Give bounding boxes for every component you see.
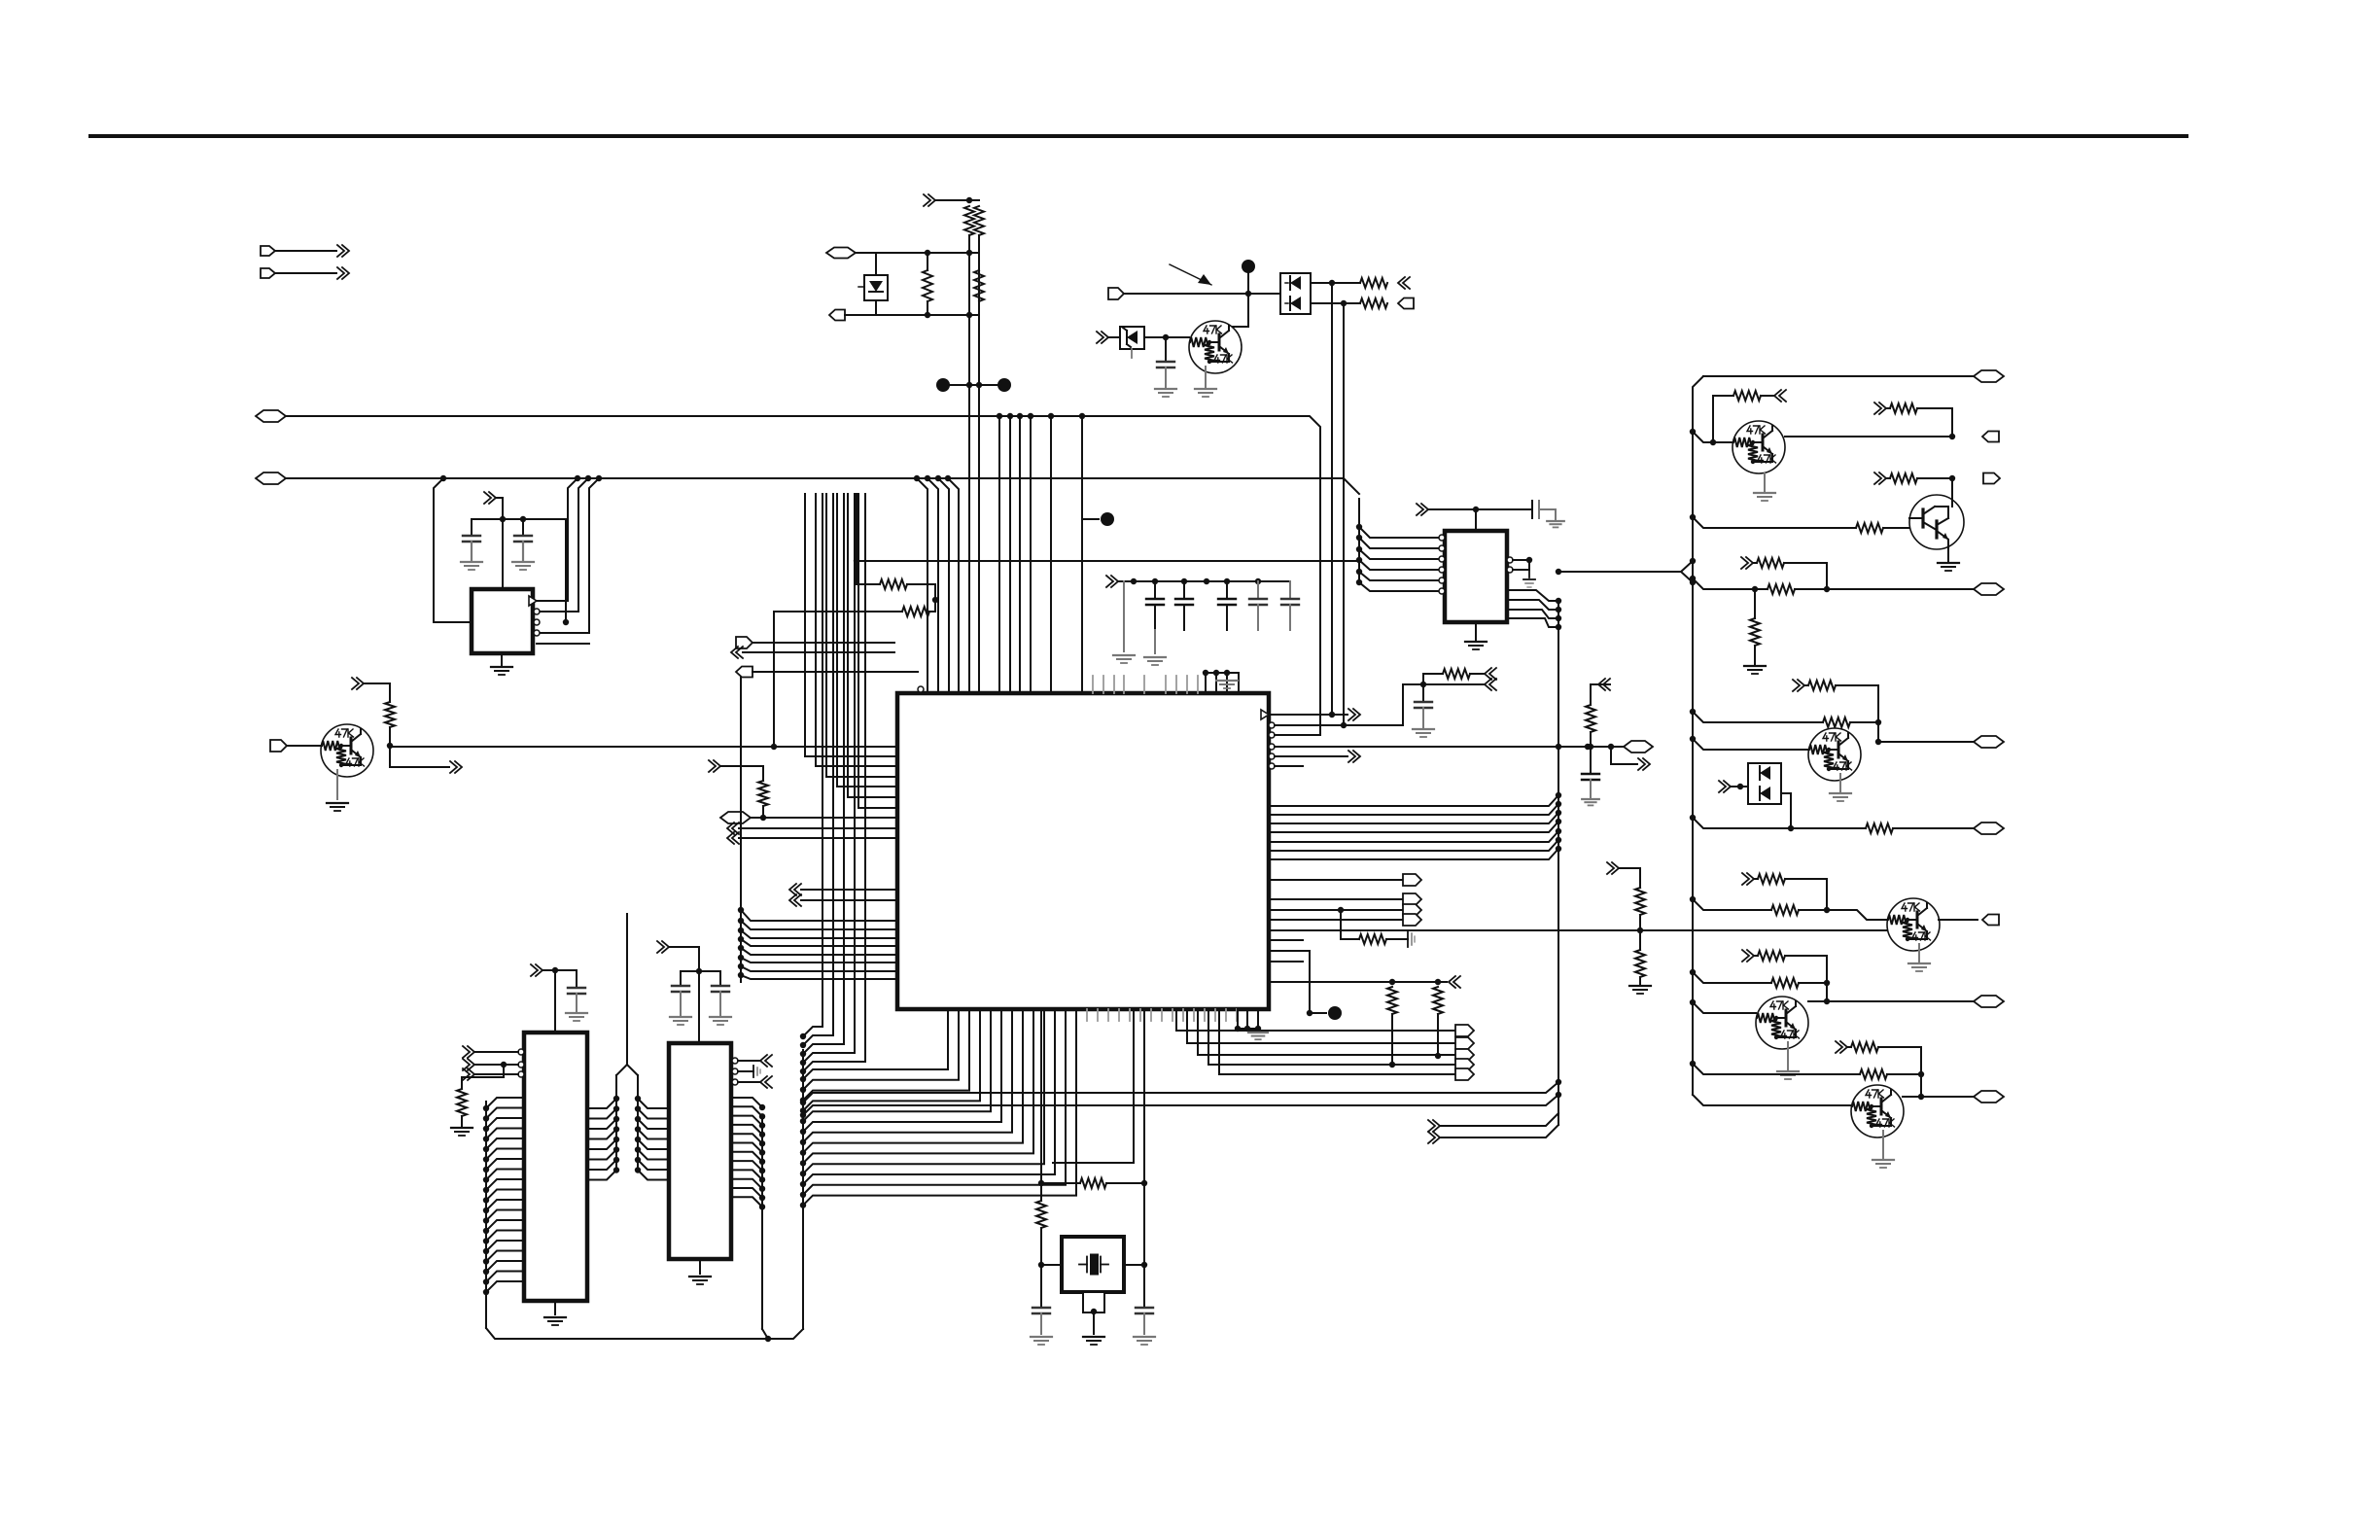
pins U5 right top: [1507, 557, 1513, 563]
capacitor C11: [522, 519, 524, 536]
resistor R29: [385, 702, 395, 727]
transistor QD circuit: [1690, 896, 1696, 902]
wire row 704: [1423, 683, 1484, 685]
wire pin R967 stub: [1269, 939, 1303, 941]
resistor R44: [1753, 562, 1757, 564]
pin U5 extra: [1358, 499, 1360, 527]
wire xtal jog: [1053, 1009, 1134, 1163]
chevron in D5: [1719, 781, 1726, 792]
chevron R40: [1774, 390, 1781, 402]
pins U3 left o: [518, 1049, 524, 1055]
wire zener out: [1144, 336, 1189, 338]
resistor R48: [1866, 823, 1893, 833]
ground U5: [1475, 622, 1477, 640]
ground U3: [554, 1301, 556, 1314]
capacitor C15: [681, 970, 699, 972]
transistor QA circuit: [1690, 429, 1696, 435]
connector pentagon P10: [270, 740, 287, 752]
wire U3 vcc: [542, 970, 555, 1032]
node big C: [1242, 260, 1255, 273]
xtal case pin: [1083, 1292, 1104, 1312]
capacitor C16: [1040, 1265, 1042, 1308]
chevron in L852: [727, 822, 734, 834]
chevron in U3 vcc: [531, 964, 538, 976]
wire U2 vcc: [496, 498, 503, 589]
bus U4 right fan: [761, 1115, 763, 1329]
wire risers bus2 to IC top: [917, 478, 927, 693]
bus connector B1: [256, 410, 286, 422]
wire pin R768 long: [1275, 746, 1624, 748]
resistor R31: [1041, 1182, 1080, 1184]
chevron in Q2 top: [352, 678, 359, 689]
pins U5 left o: [1439, 535, 1445, 541]
wire pin R978 bigdot: [1269, 951, 1326, 1013]
IC U3: [524, 1032, 587, 1301]
resistor R47: [1693, 712, 1823, 722]
chevron out q2: [450, 761, 457, 773]
chevron out J2: [337, 267, 344, 279]
chevron in R43: [1874, 472, 1881, 484]
stubs U1 top: [1092, 676, 1094, 693]
resistor R35: [1387, 987, 1397, 1014]
ground QC: [1839, 774, 1841, 791]
resistor rail right: [1392, 981, 1447, 983]
wire branch to U2: [434, 478, 473, 622]
wire branch U2 r3: [537, 478, 599, 633]
capacitor C14: [699, 971, 720, 986]
nodes bus2 branches U2 right: [575, 475, 580, 481]
wire pin R957 long: [1269, 929, 1889, 931]
chevron in R24: [1398, 277, 1405, 289]
connector arrow P9: [736, 667, 752, 678]
dual diode D5 box: [1748, 763, 1781, 804]
bus fan to U1 left lower: [740, 671, 742, 982]
triple pin ground: [1206, 672, 1239, 674]
wire QB collector: [1951, 478, 1953, 507]
transistor QC: [1808, 728, 1861, 781]
resistor R33: [1423, 674, 1443, 684]
wire q2 node: [389, 727, 391, 746]
IC U4: [669, 1043, 731, 1259]
resistor R60: [1590, 684, 1592, 705]
wire r-net link: [929, 584, 935, 612]
wire cap rail U2: [472, 518, 566, 520]
connector pentagon P7: [720, 812, 751, 823]
chevron U4 r3: [738, 1081, 759, 1083]
resistor R55: [1860, 1069, 1887, 1079]
ground QA: [1764, 473, 1766, 491]
resistor R36: [1433, 987, 1443, 1014]
resistor R53: [1771, 978, 1799, 988]
wire pin R746: [1275, 724, 1403, 726]
connector out QA: [1982, 432, 1999, 442]
resistor R32: [1040, 1183, 1042, 1201]
wire pin R936 flag: [1269, 909, 1403, 911]
chevron in PWR: [924, 194, 930, 206]
wire pin R925 flag: [1269, 898, 1403, 900]
chevron in mid chain: [1598, 679, 1605, 690]
connector pentagon P4: [829, 310, 845, 321]
wire d4 top out: [1311, 282, 1360, 284]
chevron in R56: [1836, 1041, 1842, 1053]
wire riser x1007: [978, 235, 980, 693]
wire U4 bus to rail: [762, 1329, 768, 1339]
resistor R43: [1886, 477, 1890, 479]
resistor network RN1: [1690, 576, 1696, 581]
diode D1 box: [875, 253, 877, 275]
gnd sym U4 r2: [738, 1070, 753, 1072]
crystal X1: [1062, 1237, 1124, 1292]
wire pin row 691: [752, 671, 918, 673]
chevron in L862: [727, 832, 734, 844]
capacitor C19 horiz: [1476, 508, 1530, 510]
chevron out J1: [337, 245, 344, 257]
connector flag QC: [1974, 736, 2004, 748]
zener D3 box: [1108, 336, 1120, 338]
chevron row704: [1485, 679, 1491, 690]
ground QD: [1918, 944, 1920, 962]
resistor R54: [1754, 955, 1758, 957]
node big D: [1101, 512, 1114, 526]
chevron in R54: [1742, 950, 1749, 962]
connector flag R48: [1974, 822, 2004, 834]
node bus2 branch A: [440, 475, 446, 481]
connector pentagon P6: [1398, 298, 1414, 309]
wire riser x881: [856, 494, 857, 584]
wire tap to right bus: [1558, 571, 1681, 573]
chevron in zener: [1097, 332, 1103, 343]
IC U2: [472, 589, 533, 653]
vert cluster down legs: [822, 494, 823, 1027]
cap-gnd glyph R34: [1386, 938, 1408, 940]
capacitor C13: [555, 970, 577, 988]
chevron R33: [1485, 668, 1491, 680]
bus U3 left fan: [485, 1102, 487, 1328]
resistor R34: [1359, 934, 1386, 944]
wire d4 bot out: [1311, 302, 1360, 304]
chevrons in U3 left: [463, 1046, 470, 1058]
resistor R52: [1754, 878, 1758, 880]
wire R768 branch: [1611, 747, 1637, 764]
wire QC out: [1878, 722, 1974, 742]
chevron U4 r1: [738, 1060, 759, 1062]
wire pin R788 stub: [1275, 765, 1303, 767]
wire pin R1000 rail: [1269, 981, 1392, 983]
wire pin R735: [1269, 714, 1347, 716]
transistor QC circuit: [1690, 736, 1696, 742]
pin U2 bottom wire: [537, 643, 589, 645]
wire branch U2 r2: [537, 478, 588, 612]
bottom triple pin ground: [1237, 1009, 1239, 1029]
U1 bottom right bundle: [1176, 1009, 1455, 1031]
resistor R27: [902, 607, 929, 616]
wire opto line: [1124, 293, 1280, 295]
resistor R25: [1360, 298, 1387, 308]
chevron in U4 vcc: [657, 941, 664, 953]
wire pin L841: [751, 817, 897, 819]
node big E: [1328, 1006, 1342, 1020]
wire bus1: [286, 416, 1320, 735]
ground QE: [1787, 1042, 1789, 1069]
capacitor bank C1-C5: [1154, 581, 1156, 599]
chevron in R49: [1607, 862, 1614, 874]
wire QE in: [1690, 999, 1696, 1005]
IC U5: [1445, 531, 1507, 622]
wire Y split: [616, 914, 627, 1075]
chevron out R735: [1348, 709, 1355, 720]
wire pin R905 flag: [1269, 879, 1403, 881]
resistor R50: [1635, 950, 1645, 977]
wire D5 in: [1731, 786, 1748, 787]
chevron in R28: [709, 760, 716, 772]
capacitor C17: [1143, 1265, 1145, 1308]
wire q2 out down: [390, 746, 449, 767]
connector flag R925: [1403, 893, 1421, 905]
ground caps 2: [1154, 630, 1156, 653]
bus connector B2: [256, 472, 286, 484]
wire r27 left: [881, 611, 902, 612]
wire bottom rail: [486, 1328, 803, 1339]
wire link y577: [857, 560, 1359, 562]
wire pin R989 stub: [1269, 961, 1303, 962]
connector flag T1: [1974, 370, 2004, 382]
ground U4: [699, 1259, 701, 1274]
chevron in L926: [789, 894, 796, 906]
wire collector riser: [1227, 266, 1248, 332]
top border rule: [90, 134, 2187, 138]
resistor R46: [1804, 684, 1808, 686]
chevron in R41: [1874, 402, 1881, 414]
bus2 fan to U5: [1358, 499, 1360, 582]
transistor QE circuit: [1690, 969, 1696, 975]
wire riser x1370: [1331, 283, 1333, 715]
wire caps rail: [1118, 580, 1290, 582]
transistor Q1: [1189, 321, 1242, 373]
wire riser x1382: [1343, 303, 1345, 725]
IC U1 main: [897, 693, 1269, 1009]
wire rail y260: [856, 252, 979, 254]
wire xtal left riser: [1040, 1009, 1042, 1183]
resistor R49 chain: [1619, 868, 1640, 888]
lower right pins U1 to bus1603: [1269, 795, 1558, 806]
wire bus2: [286, 478, 1359, 494]
dual diode D4 box: [1280, 273, 1311, 314]
wire QF in: [1693, 1095, 1851, 1105]
chevron in row 671: [731, 647, 738, 658]
connector flag QF: [1974, 1091, 2004, 1102]
resistor R40 branch: [1713, 396, 1733, 442]
resistor R23: [978, 253, 980, 270]
pin U1 top stub o: [918, 686, 924, 692]
transistor QB circuit: [1690, 514, 1696, 520]
chevron in R46: [1793, 680, 1800, 691]
transistor Q2: [321, 724, 373, 777]
cap branch R746: [1403, 684, 1423, 725]
wire rail y324: [845, 314, 979, 316]
connector flag RN1: [1974, 583, 2004, 595]
pins U4 right o: [732, 1058, 738, 1064]
wire dot link: [943, 384, 1004, 386]
resistor R51: [1771, 905, 1799, 915]
pins U2 right: [534, 609, 540, 614]
connector flag out R768: [1624, 741, 1653, 752]
nodes bus2 risers: [914, 475, 920, 481]
capacitor C18: [1422, 684, 1424, 702]
wire U4 vcc: [669, 947, 699, 1043]
chevron out R768b: [1638, 758, 1645, 770]
chevron in L915: [789, 884, 796, 895]
wire QA out: [1785, 436, 1952, 437]
stub big dot: [1082, 518, 1099, 520]
resistor R24: [1360, 278, 1387, 288]
connector flag P5: [1108, 288, 1124, 299]
connector flag R946: [1403, 914, 1421, 926]
resistor R41: [1886, 407, 1890, 409]
resistor R28 riser: [720, 766, 763, 781]
chevron rail: [1449, 976, 1455, 988]
resistor R30 pulldown: [462, 1065, 504, 1089]
resistor R21: [974, 206, 984, 235]
wire QE out: [1808, 1000, 1974, 1002]
connector flag R905: [1403, 874, 1421, 886]
wire mid chain: [1591, 683, 1610, 685]
wire cap rail down to pin: [565, 519, 567, 622]
wire riser cluster bus1 to IC top: [998, 416, 1000, 693]
resistor R20: [964, 206, 974, 235]
wire pin L768 long: [390, 746, 897, 748]
bus U3-U4 fans: [613, 1096, 619, 1102]
connector flag R936: [1403, 904, 1421, 916]
ground QF: [1882, 1131, 1884, 1158]
connector pentagon P8: [736, 637, 752, 648]
wire top flag: [1703, 375, 1974, 377]
transistor QE: [1756, 997, 1808, 1049]
resistor R42: [1856, 523, 1883, 533]
ground caps 1: [1123, 581, 1125, 651]
resistor R26: [857, 583, 880, 585]
wire pin R946 flag: [1269, 919, 1403, 921]
capacitor C12: [1165, 337, 1167, 362]
wire pwr top: [935, 199, 979, 201]
wire QD out: [1939, 919, 1977, 921]
wire riser x796: [773, 612, 775, 747]
wire QF out: [1903, 1096, 1974, 1098]
chevron in caps rail: [1106, 576, 1113, 587]
wire q2 in: [287, 745, 322, 747]
wire xtal leads: [1041, 1264, 1062, 1266]
ground U2: [501, 653, 503, 665]
wire riser x997: [968, 235, 970, 693]
pin R735 arrow: [1261, 710, 1269, 719]
U1 bottom pins to bus a: [803, 1009, 948, 1079]
connector out QB: [1983, 473, 2000, 484]
vert cluster left of U1: [805, 494, 897, 756]
wires U3 left pins: [474, 1051, 518, 1053]
pins U1 right o: [1269, 722, 1275, 728]
connector flag QE: [1974, 996, 2004, 1007]
bus 1603: [1557, 601, 1559, 1125]
wire pin R756: [1275, 734, 1320, 736]
ground QB: [1947, 545, 1949, 561]
capacitor C10: [471, 519, 472, 536]
connector flags bottom right: [1455, 1025, 1474, 1036]
wire xtal right riser: [1143, 1009, 1145, 1183]
connector out QD: [1982, 915, 1999, 926]
transistor QD: [1887, 898, 1940, 951]
ground Q1: [1205, 367, 1207, 387]
wire pin R778: [1275, 755, 1347, 757]
U1 long wires from bus a: [803, 1082, 1558, 1102]
wire q2 vcc: [364, 683, 390, 702]
wire bus1 risers junctions: [997, 413, 1002, 419]
resistor R22: [927, 253, 928, 270]
chevron in R44: [1741, 557, 1748, 569]
chevron in R52: [1742, 873, 1749, 885]
wire pin row 661: [752, 642, 894, 644]
connector J1 stub: [261, 246, 275, 256]
node mid chain: [1588, 744, 1593, 750]
transistor QA: [1732, 421, 1785, 473]
chevron in U2 vcc: [484, 492, 491, 504]
capacitor C20: [1582, 773, 1599, 775]
chevron out R778: [1348, 751, 1355, 762]
resistor R56: [1847, 1046, 1851, 1048]
LED arrow: [1170, 264, 1211, 285]
wire QF collector: [1920, 1074, 1922, 1097]
chevron in b1603 a: [1428, 1120, 1435, 1132]
node big B: [997, 378, 1011, 392]
connector flag P3: [826, 248, 856, 259]
branch R936 down: [1341, 910, 1359, 939]
bus a main: [802, 1050, 804, 1329]
resistor R45 pulldown: [1754, 589, 1756, 618]
chevron in b1603 b: [1428, 1132, 1435, 1143]
pin U2 arrow: [529, 596, 537, 606]
connector J2 stub: [261, 268, 275, 278]
stubs U1 bottom: [947, 1009, 949, 1021]
ground Q2: [336, 770, 338, 799]
right bus main: [1693, 376, 1703, 1095]
transistor QF: [1851, 1085, 1904, 1137]
transistor QB: [1909, 495, 1964, 549]
wire row 852: [1690, 815, 1696, 821]
node big A: [936, 378, 950, 392]
pins U5 bottom right to bus: [1507, 590, 1558, 601]
wire U5 vcc: [1428, 509, 1476, 531]
wire D5 out: [1781, 793, 1791, 828]
bus tap split: [1681, 561, 1693, 582]
wire branch U2 r1: [537, 478, 577, 601]
chevron in U5 vcc: [1417, 504, 1423, 515]
transistor QF circuit: [1690, 1061, 1696, 1067]
